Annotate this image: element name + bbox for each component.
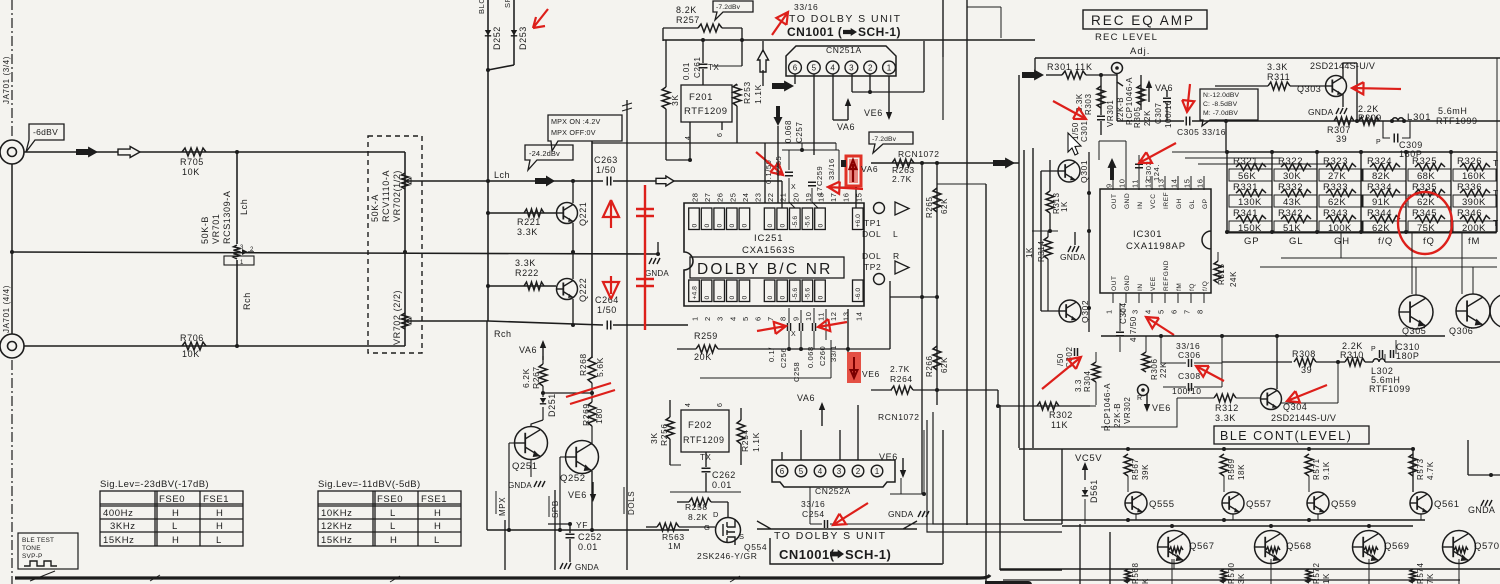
- svg-text:6: 6: [717, 403, 724, 408]
- svg-text:GP: GP: [1202, 198, 1209, 209]
- svg-text:130K: 130K: [1238, 197, 1262, 208]
- red annotation arrow C256: [757, 322, 786, 334]
- wire MPX drop: [504, 520, 506, 570]
- mouse cursor: [1068, 133, 1081, 155]
- diode D253: [511, 30, 517, 36]
- svg-text:10K: 10K: [182, 349, 200, 359]
- svg-text:f/Q: f/Q: [1378, 236, 1393, 247]
- overline DOLS: [623, 487, 625, 514]
- wire link y184: [937, 183, 986, 185]
- svg-text:0.01: 0.01: [712, 480, 732, 490]
- wire Rch input bottom: [24, 345, 405, 347]
- svg-text:F201: F201: [689, 92, 713, 103]
- svg-text:D253: D253: [518, 26, 528, 50]
- red annotation arrow down C264: [603, 276, 619, 299]
- svg-text:0: 0: [717, 224, 724, 228]
- node VR702 mid: [403, 250, 407, 254]
- svg-text:P: P: [1376, 139, 1381, 146]
- svg-text:VE6: VE6: [862, 369, 880, 379]
- svg-text:L: L: [216, 535, 222, 546]
- diode D252: [485, 30, 491, 36]
- svg-text:VE6: VE6: [864, 108, 883, 118]
- svg-text:VR701: VR701: [211, 213, 221, 244]
- svg-text:Sig.Lev=-11dBV(-5dB): Sig.Lev=-11dBV(-5dB): [318, 479, 421, 490]
- arrow RCN1072: [993, 158, 1015, 169]
- svg-text:P: P: [1371, 346, 1376, 353]
- wire pin14 down: [847, 309, 849, 352]
- svg-text:2.7K: 2.7K: [890, 364, 910, 374]
- test point TP1: [874, 203, 885, 214]
- svg-text:T: T: [1493, 188, 1499, 198]
- wire CN252A pin3 up: [839, 430, 841, 460]
- svg-text:Q306: Q306: [1449, 326, 1473, 336]
- svg-text:D: D: [713, 510, 719, 519]
- svg-text:3K: 3K: [649, 432, 659, 444]
- svg-text:-5.6: -5.6: [805, 288, 812, 300]
- wire Lch to C263: [408, 180, 603, 182]
- svg-text:VCC: VCC: [1150, 193, 1157, 209]
- svg-text:0.01: 0.01: [682, 62, 691, 80]
- svg-text:GP: GP: [1244, 236, 1259, 247]
- bus pair y520/526: [1024, 519, 1425, 521]
- svg-text:1M: 1M: [668, 541, 681, 551]
- svg-text:L: L: [172, 521, 178, 532]
- svg-text:R314: R314: [1037, 240, 1046, 262]
- red annotation arrow C301: [1053, 101, 1086, 119]
- svg-text:SCH-1): SCH-1): [858, 25, 901, 39]
- wire gnd stub: [657, 242, 659, 254]
- svg-text:VR702 (2/2): VR702 (2/2): [392, 290, 402, 345]
- svg-text:5: 5: [1157, 309, 1166, 314]
- red annotation arrow C259: [828, 182, 863, 194]
- wire y143 to IC pin22: [592, 142, 836, 144]
- wire jack1 to jack2: [11, 164, 13, 334]
- overline SPB: [548, 496, 550, 517]
- svg-text:82K: 82K: [1372, 171, 1390, 182]
- svg-text:L: L: [893, 229, 898, 239]
- svg-text:20K: 20K: [694, 352, 712, 362]
- svg-text:C254: C254: [802, 509, 825, 519]
- svg-text:CN1001 (: CN1001 (: [787, 25, 842, 39]
- wire D253 join: [488, 65, 514, 70]
- svg-text:R256: R256: [659, 423, 669, 446]
- CN251A pin 5: [807, 61, 820, 74]
- svg-text:3.3K: 3.3K: [517, 227, 538, 237]
- svg-text:fM: fM: [1176, 283, 1183, 291]
- resistor R268: [588, 357, 596, 383]
- wire Q306 up: [1472, 267, 1474, 294]
- svg-text:IC301: IC301: [1133, 229, 1162, 240]
- wire RCN1072 upper: [871, 162, 1019, 164]
- bus y530: [487, 529, 689, 531]
- svg-text:3K: 3K: [670, 94, 680, 106]
- jack JA701 (3/4): [0, 140, 24, 164]
- svg-text:56K: 56K: [1238, 171, 1256, 182]
- svg-text:IREF: IREF: [1163, 192, 1170, 209]
- svg-text:fQ: fQ: [1423, 236, 1435, 247]
- svg-text:10: 10: [804, 311, 813, 321]
- svg-text:18K: 18K: [1237, 464, 1246, 480]
- svg-text:GND: GND: [1124, 275, 1131, 291]
- ground GNDA mid: [649, 258, 660, 264]
- svg-text:1K: 1K: [1322, 573, 1331, 584]
- transistor Q567: [1158, 531, 1191, 564]
- wire matrix-BLE link2: [1260, 266, 1497, 268]
- inductor L301: [1392, 118, 1404, 121]
- svg-text:F202: F202: [688, 420, 712, 431]
- wire left vertical to bus530: [486, 321, 488, 530]
- svg-text:R268: R268: [578, 353, 588, 376]
- callout -7.2dBv top: [713, 1, 753, 20]
- svg-text:C260: C260: [818, 346, 827, 366]
- wire pin15 up: [855, 187, 857, 208]
- svg-text:R264: R264: [890, 374, 913, 384]
- wire Q303 collector: [1342, 63, 1344, 78]
- red highlight VE6 pin14: [847, 352, 861, 383]
- svg-text:1: 1: [875, 467, 880, 476]
- bottom border thick line: [15, 575, 990, 578]
- svg-text:1: 1: [240, 260, 244, 266]
- svg-text:R568: R568: [1131, 562, 1140, 584]
- svg-text:0.068: 0.068: [784, 120, 793, 143]
- wire Q222 emitter: [572, 299, 574, 325]
- callout -7.2dBv mid: [869, 132, 913, 153]
- svg-text:GNDA: GNDA: [888, 509, 913, 519]
- ground GNDA C252: [560, 563, 571, 569]
- break tick b: [622, 108, 632, 111]
- svg-text:39: 39: [1301, 365, 1312, 375]
- svg-text:14: 14: [1170, 178, 1179, 188]
- node R221 tap: [486, 211, 490, 215]
- resistor R301: [1062, 71, 1086, 79]
- svg-text:25: 25: [728, 192, 737, 202]
- svg-text:FSE1: FSE1: [421, 494, 447, 505]
- ground GNDA IC301: [1068, 246, 1079, 252]
- resistor R303: [1100, 75, 1102, 115]
- title box REC EQ AMP: [1083, 10, 1207, 29]
- svg-text:IC251: IC251: [754, 233, 783, 244]
- red annotation double slash R268: [566, 383, 615, 404]
- bus vertical x1041: [1040, 171, 1042, 311]
- red annotation arrow up C263: [603, 200, 619, 228]
- svg-text:12KHz: 12KHz: [321, 521, 353, 532]
- CN251A pin 2: [864, 61, 877, 74]
- svg-text:2: 2: [703, 316, 712, 321]
- red annotation arrow C303: [1139, 143, 1176, 163]
- svg-text:TONE: TONE: [22, 545, 41, 552]
- sheet border dash-dot left top: [11, 0, 13, 138]
- svg-text:GL: GL: [1189, 199, 1196, 209]
- red annotation arrow C302/R304: [1042, 357, 1081, 389]
- wire Q251 emitter: [530, 459, 532, 477]
- svg-text:R567: R567: [1131, 458, 1140, 480]
- resistor R571 9.1K: [1305, 454, 1313, 476]
- wire R313/R314 junction: [1032, 230, 1058, 232]
- svg-text:CN252A: CN252A: [815, 486, 851, 496]
- node bus40: [740, 38, 744, 42]
- svg-text:Rch: Rch: [242, 292, 252, 310]
- svg-text:22K: 22K: [1159, 362, 1168, 378]
- svg-text:C308: C308: [1178, 371, 1201, 381]
- svg-text:C: -8.5dBV: C: -8.5dBV: [1203, 101, 1238, 108]
- svg-text:0: 0: [729, 296, 736, 300]
- resistor F201 box: [681, 85, 732, 122]
- wire RCN1072 lower: [937, 389, 998, 391]
- svg-text:VA6: VA6: [1155, 83, 1173, 93]
- svg-text:8.2K: 8.2K: [676, 5, 697, 15]
- svg-text:4: 4: [1144, 309, 1153, 314]
- svg-text:4: 4: [728, 316, 737, 321]
- svg-text:S: S: [739, 532, 745, 541]
- svg-text:+6.0: +6.0: [855, 214, 862, 228]
- svg-text:10: 10: [1118, 178, 1127, 188]
- svg-text:1.1K: 1.1K: [751, 432, 761, 452]
- potentiometer VR301: [1112, 63, 1123, 74]
- wire matrix-BLE link1: [1281, 257, 1497, 259]
- matrix column rail 6: [1450, 152, 1452, 232]
- svg-text:39K: 39K: [1141, 464, 1150, 480]
- svg-text:GL: GL: [1289, 236, 1303, 247]
- ground GNDA Q303: [1336, 108, 1347, 114]
- transistor Q570: [1443, 531, 1476, 564]
- transistor Q251: [515, 427, 548, 460]
- svg-text:IN: IN: [1137, 201, 1144, 209]
- CN251A pin 6: [789, 61, 802, 74]
- svg-text:R259: R259: [694, 331, 718, 341]
- transistor Q302: [1059, 300, 1081, 322]
- wire Q221 emitter: [572, 223, 574, 252]
- svg-text:3K: 3K: [1237, 573, 1246, 584]
- resistor F202 box: [681, 410, 729, 452]
- svg-text:MPX OFF:0V: MPX OFF:0V: [551, 128, 596, 137]
- svg-text:180: 180: [594, 408, 604, 424]
- svg-text:1K: 1K: [1025, 247, 1034, 258]
- svg-text:H: H: [172, 535, 179, 546]
- dashed outline VR702 block: [368, 136, 422, 353]
- potentiometer VR701: [234, 245, 241, 259]
- svg-text:5.6K: 5.6K: [595, 357, 605, 377]
- svg-text:8.2K: 8.2K: [688, 512, 708, 522]
- transistor Q568: [1255, 531, 1288, 564]
- svg-text:VR302: VR302: [1123, 397, 1132, 424]
- svg-text:GNDA: GNDA: [575, 563, 599, 572]
- wire DOLS drop: [626, 100, 628, 570]
- red annotation arrow C306: [1196, 366, 1224, 381]
- svg-text:0: 0: [704, 296, 711, 300]
- svg-text:BLE TEST: BLE TEST: [22, 537, 54, 544]
- svg-text:R269: R269: [581, 403, 591, 426]
- wire BLE right: [1385, 361, 1500, 363]
- svg-text:11K: 11K: [1051, 420, 1068, 430]
- break tick a: [622, 103, 632, 106]
- svg-text:H: H: [172, 508, 179, 519]
- wire VR702(1/2) element: [404, 152, 406, 252]
- svg-text:3: 3: [1131, 309, 1140, 314]
- callout voltage box N/C/M: [1200, 89, 1258, 126]
- svg-text:C252: C252: [578, 532, 602, 542]
- svg-text:DOLS: DOLS: [627, 491, 636, 515]
- svg-text:0: 0: [717, 296, 724, 300]
- svg-text:JA701 (3/4): JA701 (3/4): [2, 56, 11, 104]
- svg-text:3: 3: [240, 245, 244, 251]
- svg-text:0.068: 0.068: [806, 346, 815, 368]
- svg-text:4: 4: [818, 467, 823, 476]
- wire to Q222 base: [488, 285, 556, 287]
- red annotation arrow Q303: [1352, 82, 1401, 94]
- svg-text:13: 13: [842, 311, 851, 321]
- svg-text:20: 20: [791, 192, 800, 202]
- wire Rch to C264: [488, 321, 603, 325]
- red annotation arrow D253: [533, 9, 548, 28]
- wire IC301 pin14 to matrix: [1172, 151, 1228, 153]
- svg-text:Q567: Q567: [1189, 541, 1215, 552]
- resistor R265: [936, 163, 938, 297]
- svg-text:RTF1209: RTF1209: [683, 435, 725, 445]
- transistor Q555: [1125, 492, 1147, 514]
- svg-text:100K: 100K: [1328, 223, 1352, 234]
- IC251 top pins 28-15: [689, 208, 700, 230]
- sheet border dash-dot lower: [11, 360, 13, 584]
- svg-text:R: R: [893, 251, 900, 261]
- wire VR701 to Rch: [236, 260, 238, 346]
- wire CN252A pin2 up: [857, 405, 859, 460]
- svg-text:R312: R312: [1215, 403, 1239, 413]
- wire pin10 hook: [800, 310, 802, 323]
- svg-text:MPX ON :4.2V: MPX ON :4.2V: [551, 117, 601, 126]
- svg-text:R253: R253: [742, 81, 752, 104]
- capacitor C301: [1097, 116, 1105, 120]
- svg-text:Lch: Lch: [494, 170, 510, 180]
- wire Q221 collector: [572, 181, 574, 203]
- wire x943 down: [942, 430, 944, 564]
- svg-text:R303: R303: [1084, 93, 1093, 115]
- svg-text:0: 0: [767, 224, 774, 228]
- svg-text:10K: 10K: [182, 167, 200, 177]
- svg-text:1: 1: [887, 63, 892, 72]
- transistor Q554 2SK246: [716, 518, 741, 543]
- bus top right y58: [1035, 57, 1500, 59]
- red annotation arrow C305: [1182, 84, 1194, 112]
- svg-text:M: -7.0dBV: M: -7.0dBV: [1203, 110, 1238, 117]
- svg-text:Q559: Q559: [1331, 499, 1357, 510]
- svg-text:VA6: VA6: [837, 122, 855, 132]
- svg-text:GND: GND: [1124, 193, 1131, 209]
- CN251A pin 3: [845, 61, 858, 74]
- svg-text:Q221: Q221: [578, 202, 588, 226]
- svg-text:Q568: Q568: [1286, 541, 1312, 552]
- inductor L302: [1373, 359, 1385, 362]
- svg-text:50K-A: 50K-A: [370, 194, 380, 222]
- svg-text:-5.6: -5.6: [792, 216, 799, 228]
- transistor Q559: [1307, 492, 1329, 514]
- resistor R314: [1047, 231, 1049, 237]
- wire rail x1089: [1088, 152, 1090, 332]
- svg-text:68K: 68K: [1417, 171, 1435, 182]
- svg-text:4.7/50: 4.7/50: [1129, 316, 1138, 342]
- svg-text:9: 9: [1105, 183, 1114, 188]
- svg-text:1K: 1K: [1060, 201, 1069, 212]
- svg-text:OUT: OUT: [1111, 275, 1118, 291]
- svg-text:33/16: 33/16: [794, 2, 818, 12]
- svg-text:2: 2: [856, 467, 861, 476]
- svg-text:9: 9: [791, 316, 800, 321]
- svg-text:33/16: 33/16: [801, 499, 825, 509]
- CN251A pin 4: [826, 61, 839, 74]
- svg-text:22: 22: [766, 192, 775, 202]
- CN252A pin 1: [871, 465, 883, 477]
- svg-text:VC5V: VC5V: [1075, 453, 1102, 464]
- svg-text:Rch: Rch: [494, 329, 512, 339]
- connector CN251A housing: [786, 46, 896, 76]
- svg-text:1: 1: [1105, 309, 1114, 314]
- CN252A pin 5: [795, 465, 807, 477]
- node GNDA mid: [656, 252, 660, 256]
- svg-text:H: H: [390, 535, 397, 546]
- wire Rch from VR702: [408, 320, 488, 322]
- wire VR702(2/2) element: [404, 252, 406, 346]
- transistor Q569: [1353, 531, 1386, 564]
- resistor R305: [1140, 75, 1142, 110]
- red annotation arrow TO DOLBY top: [772, 12, 788, 35]
- svg-text:-5.6: -5.6: [805, 216, 812, 228]
- svg-text:62K: 62K: [1417, 197, 1435, 208]
- wire CN251A pin2 down: [869, 74, 871, 92]
- svg-text:R706: R706: [180, 333, 204, 343]
- capacitor C303: [1138, 155, 1140, 176]
- red annotation arrow C254: [833, 503, 868, 525]
- wire pin21 up: [781, 181, 783, 208]
- svg-text:12: 12: [829, 311, 838, 321]
- svg-text:7: 7: [1183, 309, 1192, 314]
- resistor R256 3K: [666, 417, 674, 439]
- svg-text:6: 6: [793, 63, 798, 72]
- svg-text:RCN1072: RCN1072: [878, 412, 920, 422]
- arrow Lch: [535, 176, 555, 187]
- transistor Q222: [557, 279, 578, 300]
- capacitor C307: [1163, 98, 1171, 102]
- svg-text:REC LEVEL: REC LEVEL: [1095, 32, 1158, 43]
- svg-text:16: 16: [842, 192, 851, 202]
- svg-text:R267: R267: [531, 366, 541, 389]
- svg-text:0: 0: [767, 296, 774, 300]
- svg-text:11: 11: [1131, 179, 1140, 188]
- signal flow arrow solid: [76, 147, 98, 158]
- svg-text:Q570: Q570: [1474, 541, 1500, 552]
- wire CN251A pin4 down: [832, 74, 834, 120]
- svg-text:FSE0: FSE0: [159, 494, 185, 505]
- wire pin10 up: [1125, 141, 1127, 176]
- svg-text:H: H: [434, 508, 441, 519]
- connector trapezoid bottom: [757, 521, 917, 529]
- svg-text:3.3K: 3.3K: [1267, 62, 1288, 72]
- svg-text:RCS1309-A: RCS1309-A: [222, 191, 232, 244]
- wire under IC y378: [700, 377, 831, 379]
- wire Q304 collector: [1276, 336, 1278, 389]
- svg-text:160K: 160K: [1462, 171, 1486, 182]
- wire CN251A pin3 corner: [851, 74, 853, 92]
- wire BLE y362: [1163, 361, 1298, 363]
- svg-text:CXA1563S: CXA1563S: [742, 245, 795, 256]
- title box BLE CONT (LEVEL): [1214, 426, 1369, 444]
- svg-text:7: 7: [766, 316, 775, 321]
- wire link y297: [890, 296, 937, 298]
- svg-text:R569: R569: [1227, 458, 1236, 480]
- wire R257 right leg: [741, 28, 743, 66]
- svg-text:62K: 62K: [1372, 223, 1390, 234]
- bus vertical x1033: [1032, 148, 1034, 448]
- node R706: [235, 344, 239, 348]
- svg-text:R305: R305: [1133, 106, 1142, 128]
